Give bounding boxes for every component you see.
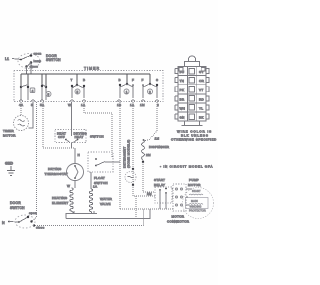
wire line bus [21,73,150,75]
svg-text:OR: OR [199,79,205,83]
note wire color [171,130,217,142]
water valve coil [89,189,92,213]
neutral bus wire [35,225,144,227]
dispenser solenoid coil [142,140,145,160]
drying thermostat [67,164,84,181]
svg-text:T: T [71,78,73,82]
svg-text:PUMP: PUMP [189,178,199,182]
svg-text:W: W [67,184,70,188]
svg-text:START: START [154,178,165,182]
label DRYING THERMOSTAT [45,167,69,176]
label MOTOR CONNECTOR [167,215,190,224]
svg-text:5: 5 [77,90,79,94]
door switch S1 top [18,54,40,69]
harness connector P1 [175,56,209,126]
svg-text:HEATING: HEATING [52,196,68,200]
timer terminal bumps [20,100,159,101]
node L1 [5,57,9,61]
heat off contact [57,132,70,143]
wire riser x133 [132,102,134,169]
svg-text:DRYING: DRYING [48,167,62,171]
svg-text:1M: 1M [140,103,145,107]
wire timer motor top feed [20,102,22,116]
svg-text:YL: YL [199,106,203,110]
cam number 5a [46,92,51,97]
svg-text:1A: 1A [93,185,98,189]
svg-text:SWITCH: SWITCH [90,135,104,139]
svg-text:DOOR: DOOR [10,201,21,205]
svg-text:ELEMENT: ELEMENT [52,201,69,205]
label HEATING ELEMENT [52,196,69,205]
return bus lower [66,209,150,219]
svg-text:MOTOR: MOTOR [3,134,16,138]
dispenser motor circle [125,169,136,185]
svg-text:GY: GY [199,70,204,74]
svg-text:1A: 1A [130,103,135,107]
svg-text:MOTOR: MOTOR [188,183,201,187]
junction dot x133 [132,168,134,170]
svg-text:CONNECTOR: CONNECTOR [167,220,190,224]
wire timer motor feed [29,102,34,128]
float switch contacts [95,158,120,166]
svg-text:FLOAT: FLOAT [94,176,105,180]
cam number 2 [148,89,153,94]
svg-text:5M: 5M [147,192,152,196]
svg-text:BU: BU [180,70,185,74]
drying heat switch enclosure [55,130,86,143]
wire dispenser down to relay [143,160,155,192]
svg-text:OFF: OFF [58,135,65,139]
cam number 1 [124,89,129,94]
svg-text:PK: PK [180,88,185,92]
timer cam switch group 4 [20,74,29,100]
svg-text:H: H [78,153,81,157]
svg-text:2: 2 [149,90,151,94]
svg-text:1B: 1B [117,103,121,107]
svg-text:WH: WH [180,106,186,110]
svg-text:W: W [68,103,71,107]
wire terminal 2 to dispenser [144,114,157,141]
svg-text:WINDING: WINDING [190,205,202,209]
junction dot dispenser [142,161,144,163]
connector pin labels [180,70,205,120]
wire lower link [120,208,173,210]
svg-text:(SOME MODELS): (SOME MODELS) [127,139,131,168]
wire L1 lead [12,59,21,60]
wire into heat switch [71,102,73,136]
svg-text:5: 5 [48,92,50,96]
svg-text:SWITCH: SWITCH [10,206,25,210]
label PUMP MOTOR [188,178,201,187]
svg-text:F: F [142,78,144,82]
svg-text:S: S [156,78,158,82]
cam number 5b [75,89,80,94]
svg-text:RD: RD [199,97,205,101]
svg-text:SWITCH: SWITCH [46,58,61,62]
label FLOAT SWITCH [94,176,108,185]
label TIMER MOTOR [3,129,16,138]
wire terminal 2 stub [156,102,158,114]
dispenser switch contact [143,137,160,141]
svg-text:close: close [36,226,45,230]
svg-text:open: open [29,211,37,215]
svg-text:DISPENSER: DISPENSER [149,145,170,149]
svg-text:GND: GND [5,162,13,166]
svg-text:START: START [192,189,201,193]
wire vertical left drop x36 [32,102,37,222]
svg-text:OTHERWISE SPECIFIED: OTHERWISE SPECIFIED [171,138,217,142]
bottom door switch [2,201,45,230]
svg-text:1M: 1M [155,137,160,141]
wire dispenser circle down [133,185,155,196]
wire heater to return [73,212,75,215]
ground symbol [7,166,15,176]
heating element [70,188,74,213]
motor connector enclosure [173,184,186,211]
svg-text:THERMOSTAT: THERMOSTAT [45,172,69,176]
svg-text:L1: L1 [5,57,9,61]
svg-text:GN: GN [180,116,185,120]
wire water valve to return [91,212,93,215]
wire 1A to float switch [84,102,112,157]
pump motor M2 [183,188,214,219]
wire heat switch pole down [72,143,76,164]
svg-text:MAIN: MAIN [191,199,198,203]
return wire coils [66,211,97,219]
svg-text:4A: 4A [19,103,24,107]
timer cam switch group 1 [119,74,135,98]
svg-text:BK: BK [199,116,204,120]
svg-text:• IN CIRCUIT MODEL GFA: • IN CIRCUIT MODEL GFA [160,165,213,169]
svg-text:MOTOR: MOTOR [172,215,185,219]
svg-text:lamp: lamp [34,59,42,63]
svg-text:BR: BR [180,97,185,101]
wires relay to connector [172,189,192,205]
svg-text:PROTECTOR: PROTECTOR [189,209,206,213]
svg-text:5A: 5A [40,103,45,107]
svg-text:1A: 1A [81,103,86,107]
svg-text:open: open [34,52,42,56]
svg-text:4: 4 [32,89,34,93]
svg-text:B: B [119,78,121,82]
svg-text:1: 1 [126,90,128,94]
svg-text:RELAY: RELAY [154,183,165,187]
svg-text:VALVE: VALVE [100,202,111,206]
timer U1 dashed enclosure [14,71,163,102]
timer cam switch group 5b [71,74,86,98]
label WATER VALVE [100,197,113,206]
wire bus end riser [143,209,145,226]
svg-text:WATER: WATER [100,197,113,201]
cam number 4 [30,88,35,93]
svg-text:T I M E R: T I M E R [84,67,100,71]
svg-text:2M: 2M [146,153,151,157]
label START RELAY [154,178,165,187]
svg-text:B: B [83,78,85,82]
junction dot dispenser motor out [132,184,134,186]
wire link x136 [135,196,137,219]
svg-text:N: N [2,221,5,225]
svg-text:HEAT: HEAT [75,135,84,139]
float switch enclosure [88,152,113,172]
drying heat contact [74,132,88,143]
label DOOR SWITCH top [46,54,61,62]
wire door switch down [26,67,28,75]
wire thermostat to heater [74,181,76,189]
svg-text:VT: VT [199,88,204,92]
wire float feed down to water valve [90,172,92,189]
svg-text:TN: TN [180,79,185,83]
svg-text:TIMER: TIMER [3,129,14,133]
wire lamp terminal down [30,64,32,75]
wire riser x120 [119,102,121,209]
svg-text:F: F [132,78,134,82]
motor connector terminals [176,188,183,206]
start relay enclosure [155,187,172,203]
wire heat off return [43,102,75,148]
start relay contacts [159,188,167,209]
timer motor M1 [14,116,29,131]
timer cam switch group 5a [41,74,47,100]
timer cam switch group 2 [142,74,159,98]
timer terminal labels bottom [19,103,159,107]
vertical label detergent dispenser [123,139,131,168]
